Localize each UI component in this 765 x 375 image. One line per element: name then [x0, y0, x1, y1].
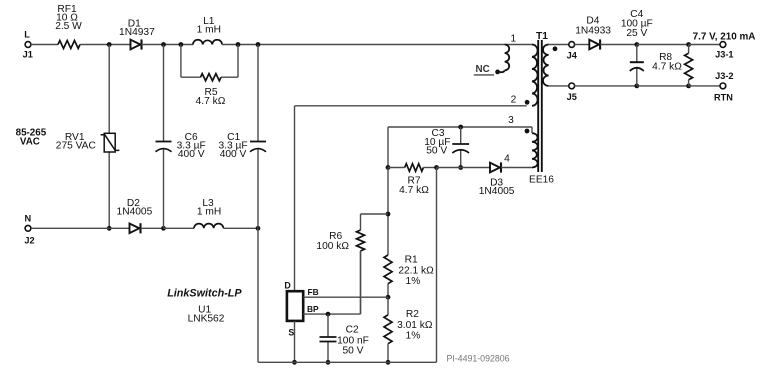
- terminal J4: [569, 42, 575, 48]
- op-amp U1 (LNK562 IC): [287, 291, 303, 321]
- node junction R5 loop left: [179, 42, 184, 47]
- inductor L3: [194, 224, 223, 229]
- wire D2 to C6 node: [141, 227, 164, 229]
- resistor R5 (parallel with L1): [180, 45, 182, 78]
- node junction R7 left: [386, 165, 391, 170]
- terminal J3-1: [720, 42, 726, 48]
- svg-text:4.7 kΩ: 4.7 kΩ: [196, 96, 226, 107]
- svg-text:D: D: [284, 281, 290, 291]
- wire D1 to L1: [142, 44, 194, 46]
- svg-text:BP: BP: [307, 304, 319, 314]
- wire J2 to D2: [31, 227, 130, 229]
- svg-text:400 V: 400 V: [220, 149, 247, 160]
- node junction top rail / C6 branch: [161, 42, 166, 47]
- terminal J2 (N input): [25, 225, 31, 231]
- wire U1 source to bottom rail: [294, 321, 296, 362]
- wire C6 node to L3: [164, 227, 195, 229]
- node junction R8 top: [686, 42, 691, 47]
- capacitor C4: [636, 45, 638, 63]
- node junction N rail / C6: [161, 226, 166, 231]
- svg-text:R1: R1: [405, 255, 418, 266]
- wire D3 to transformer pin 4: [501, 167, 532, 169]
- svg-text:J5: J5: [567, 92, 577, 102]
- svg-text:R2: R2: [406, 309, 419, 320]
- wire J1 to RF1: [31, 44, 59, 46]
- diode D4: [589, 40, 599, 50]
- node junction pin3 wire / C3: [458, 125, 463, 130]
- resistor RF1: [58, 41, 80, 49]
- wire top rail to transformer pin 1: [290, 44, 532, 46]
- svg-text:EE16: EE16: [529, 175, 554, 186]
- svg-text:2: 2: [511, 95, 517, 106]
- wire secondary top to J4: [549, 44, 570, 46]
- node junction R5 loop right: [236, 42, 241, 47]
- capacitor C6: [163, 45, 165, 142]
- capacitor C2: [327, 314, 329, 337]
- svg-text:RTN: RTN: [714, 92, 733, 102]
- capacitor C3: [460, 127, 462, 144]
- node junction R2 bottom rail: [386, 360, 391, 365]
- svg-text:4.7 kΩ: 4.7 kΩ: [399, 185, 429, 196]
- diode D1: [131, 40, 141, 50]
- varistor RV1: [104, 133, 115, 152]
- wire secondary bottom to J5: [549, 85, 570, 87]
- wire bottom rail: [258, 361, 437, 363]
- terminal J1 (L input): [25, 42, 31, 48]
- node junction R6 branch: [386, 212, 391, 217]
- svg-text:275 VAC: 275 VAC: [56, 140, 96, 151]
- svg-text:1N4005: 1N4005: [117, 206, 153, 217]
- svg-text:1N4933: 1N4933: [575, 25, 611, 36]
- svg-text:3.01 kΩ: 3.01 kΩ: [397, 320, 433, 331]
- node junction R8 bottom: [686, 84, 691, 89]
- svg-text:J3-1: J3-1: [715, 50, 733, 60]
- wire L1 to C1 node: [222, 44, 290, 46]
- wire BP pin to R6: [303, 313, 360, 315]
- phasing dot secondary: [553, 46, 558, 51]
- svg-text:1%: 1%: [406, 331, 421, 342]
- svg-text:1: 1: [510, 33, 516, 44]
- wire J5 to C4 bottom: [574, 85, 637, 87]
- svg-text:L: L: [24, 30, 30, 40]
- transformer bias winding pins 3-4: [532, 133, 538, 167]
- transformer secondary winding: [543, 45, 549, 86]
- wire C4 to R8: [637, 44, 689, 46]
- svg-text:J2: J2: [24, 235, 34, 245]
- wire D4 to C4: [600, 44, 637, 46]
- node junction pin4 line / return vertical: [434, 165, 439, 170]
- wire J4 to D4: [575, 44, 590, 46]
- resistor R2: [387, 297, 389, 315]
- svg-text:3: 3: [508, 115, 514, 126]
- wire R8 bottom to J3-2: [689, 85, 721, 87]
- phasing dot bias winding: [525, 129, 530, 134]
- node junction top rail / RV1 branch: [107, 42, 112, 47]
- svg-text:NC: NC: [476, 64, 490, 75]
- svg-text:50 V: 50 V: [343, 345, 364, 356]
- node junction U1 source / bottom rail: [292, 360, 297, 365]
- wire C4 bottom to R8 bottom: [637, 85, 689, 87]
- diode D2: [130, 224, 140, 234]
- wire L3 to C1 node: [223, 227, 258, 229]
- inductor L1: [193, 40, 222, 45]
- transformer T1 core: [537, 40, 539, 172]
- node junction top rail / C1 branch: [256, 42, 261, 47]
- capacitor C1: [257, 45, 259, 142]
- transformer NC winding: [505, 45, 510, 71]
- svg-text:LNK562: LNK562: [188, 314, 225, 325]
- svg-text:7.7 V, 210 mA: 7.7 V, 210 mA: [693, 32, 756, 43]
- wire FB pin to divider: [303, 296, 388, 298]
- svg-text:J4: J4: [567, 51, 578, 61]
- node junction N rail / RV1: [107, 226, 112, 231]
- svg-text:4.7 kΩ: 4.7 kΩ: [652, 62, 682, 73]
- svg-text:FB: FB: [308, 287, 319, 297]
- svg-text:1 mH: 1 mH: [197, 206, 221, 217]
- svg-text:S: S: [288, 328, 294, 338]
- terminal J3-2: [720, 83, 726, 89]
- node junction BP / C2: [326, 312, 331, 317]
- svg-text:J1: J1: [23, 50, 33, 60]
- svg-text:2.5 W: 2.5 W: [55, 21, 82, 32]
- svg-text:C2: C2: [346, 324, 359, 335]
- svg-text:100 kΩ: 100 kΩ: [316, 241, 349, 252]
- node junction C3 bottom: [458, 165, 463, 170]
- svg-text:4: 4: [504, 154, 510, 165]
- svg-text:50 V: 50 V: [426, 145, 447, 156]
- svg-text:400 V: 400 V: [178, 149, 205, 160]
- svg-text:VAC: VAC: [20, 137, 40, 148]
- node junction FB: [386, 295, 391, 300]
- svg-text:1 mH: 1 mH: [197, 25, 221, 36]
- svg-text:J3-2: J3-2: [715, 71, 733, 81]
- wire R8 to J3-1: [689, 44, 721, 46]
- node NC terminal dot: [495, 70, 500, 75]
- svg-text:1N4005: 1N4005: [479, 186, 515, 197]
- svg-text:1%: 1%: [406, 276, 421, 287]
- resistor R7: [405, 164, 424, 172]
- node junction C4 bottom: [634, 84, 639, 89]
- svg-text:N: N: [24, 213, 31, 223]
- svg-text:PI-4491-092806: PI-4491-092806: [446, 353, 509, 363]
- svg-text:1N4937: 1N4937: [119, 27, 155, 38]
- node junction C4 top: [634, 42, 639, 47]
- wire transformer pin 2 to U1 drain: [295, 105, 527, 107]
- node junction C2 bottom rail: [326, 360, 331, 365]
- wire R7 node to D3: [437, 167, 491, 169]
- transformer primary winding pins 1-2: [532, 45, 538, 106]
- wire R6 branch horizontal: [361, 213, 389, 215]
- wire return vertical to pin4 line: [436, 168, 438, 363]
- resistor R6: [360, 214, 362, 230]
- node junction N rail / C1: [256, 226, 261, 231]
- resistor R1: [384, 255, 392, 284]
- wire pin3 corner to R6 node: [387, 168, 389, 256]
- wire RV1 branch vertical: [108, 45, 110, 229]
- resistor R8: [688, 45, 690, 54]
- wire RF1 to D1: [80, 44, 131, 46]
- wire transformer pin 3 to divider: [388, 126, 532, 128]
- svg-text:LinkSwitch-LP: LinkSwitch-LP: [167, 288, 242, 300]
- diode D3: [490, 163, 500, 173]
- svg-text:25 V: 25 V: [626, 28, 647, 39]
- terminal J5: [569, 83, 575, 89]
- phasing dot primary pin 2: [525, 100, 530, 105]
